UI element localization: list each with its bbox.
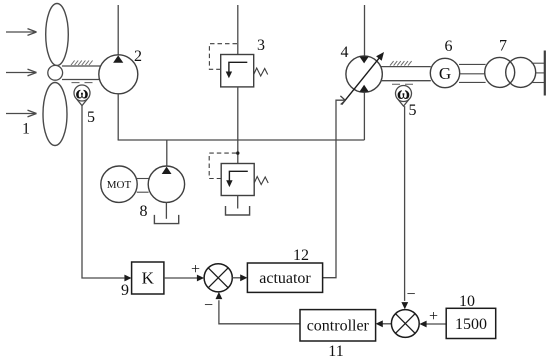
relief valve 3 pilot line: [209, 44, 237, 70]
svg-text:1500: 1500: [455, 316, 487, 333]
reference block 1500: [446, 308, 496, 338]
3-phase lines G to transformer: [459, 64, 486, 82]
motor 4 supply line (top): [364, 5, 366, 56]
tank (charge pump): [154, 215, 178, 224]
svg-text:10: 10: [459, 293, 475, 310]
svg-text:7: 7: [499, 38, 507, 55]
3-phase lines transformer to grid: [532, 63, 545, 82]
wire junction 1 to actuator: [232, 277, 241, 279]
speed sensor 5 (rotor side): [74, 85, 90, 106]
lower relief valve drain pipe: [237, 196, 239, 209]
wire K to summing junction 1: [164, 277, 198, 279]
wind arrow middle: [6, 69, 37, 76]
relief valve 3 supply line: [237, 5, 239, 55]
svg-text:−: −: [406, 286, 415, 303]
relief valve 3 spring: [254, 68, 268, 76]
wire sensor5-left to K: [82, 106, 124, 278]
gain block K: [132, 262, 164, 294]
sensor coupling dashes right: [392, 83, 413, 85]
svg-text:12: 12: [293, 247, 309, 264]
generator G: [430, 58, 459, 87]
turbine hub: [48, 65, 63, 80]
summing junction 1: [204, 264, 232, 292]
generator shaft (motor 4 to G): [381, 67, 431, 81]
wire controller to junction 1: [219, 300, 300, 324]
transformer 7: [485, 57, 536, 87]
svg-text:8: 8: [140, 203, 148, 220]
svg-text:ω: ω: [75, 83, 88, 103]
charge pump suction pipe: [165, 202, 167, 218]
turbine blade lower: [43, 83, 67, 146]
pump 2: [99, 55, 138, 94]
wire junction 2 to controller: [382, 323, 391, 325]
relief valve 3: [221, 55, 254, 87]
wire valve 3 to main line and valve below: [237, 87, 239, 164]
wire sensor5-right to summing junction 2: [404, 106, 406, 301]
svg-text:+: +: [429, 308, 438, 325]
sensor coupling dashes left: [72, 82, 93, 84]
main hydraulic line: [118, 139, 365, 141]
lower relief valve pilot line: [209, 153, 237, 178]
motor 4 variable-displacement arrow: [342, 57, 380, 104]
tank (lower valve): [226, 206, 250, 215]
bearing hatch left: [71, 61, 93, 66]
wire pump 2 to main line: [117, 94, 119, 140]
wind arrow bottom: [6, 110, 37, 117]
actuator-to-motor control wire: [323, 100, 345, 278]
svg-text:6: 6: [445, 38, 453, 55]
summing junction 2: [391, 310, 419, 338]
pump 2 supply line (top): [117, 5, 119, 55]
svg-text:4: 4: [341, 44, 349, 61]
svg-text:actuator: actuator: [259, 270, 311, 287]
turbine blade upper: [46, 4, 69, 66]
svg-text:5: 5: [87, 109, 95, 126]
bearing hatch right: [390, 61, 412, 66]
wire motor 4 to main line: [363, 92, 365, 140]
actuator block: [247, 263, 322, 292]
pilot junction dot: [236, 151, 239, 154]
coupling MOT-pump: [137, 179, 149, 193]
charge pump 8: [148, 166, 184, 202]
controller block: [300, 310, 376, 341]
svg-text:5: 5: [409, 102, 417, 119]
wire 1500 to junction 2: [426, 323, 446, 325]
relief valve (lower, unnumbered): [221, 164, 254, 196]
svg-text:3: 3: [257, 37, 265, 54]
speed sensor 5 (generator side): [396, 86, 412, 107]
main shaft (hub to pump 2): [62, 66, 101, 80]
svg-text:G: G: [439, 64, 451, 83]
svg-text:MOT: MOT: [107, 179, 132, 191]
svg-text:9: 9: [121, 282, 129, 299]
svg-text:K: K: [142, 269, 155, 288]
control wire open arrowhead: [340, 96, 345, 105]
grid busbar: [544, 51, 546, 96]
wind arrow top: [6, 29, 37, 36]
variable motor 4: [346, 56, 382, 92]
lower relief valve spring: [254, 177, 268, 185]
svg-text:−: −: [204, 297, 213, 314]
svg-text:controller: controller: [307, 318, 370, 335]
arrow into K: [124, 275, 131, 282]
svg-text:ω: ω: [397, 83, 410, 103]
wire charge pump to main line: [166, 140, 168, 167]
svg-text:+: +: [191, 261, 200, 278]
svg-text:1: 1: [22, 121, 30, 138]
svg-text:11: 11: [328, 343, 343, 360]
svg-text:2: 2: [134, 48, 142, 65]
motor MOT: [101, 166, 137, 202]
